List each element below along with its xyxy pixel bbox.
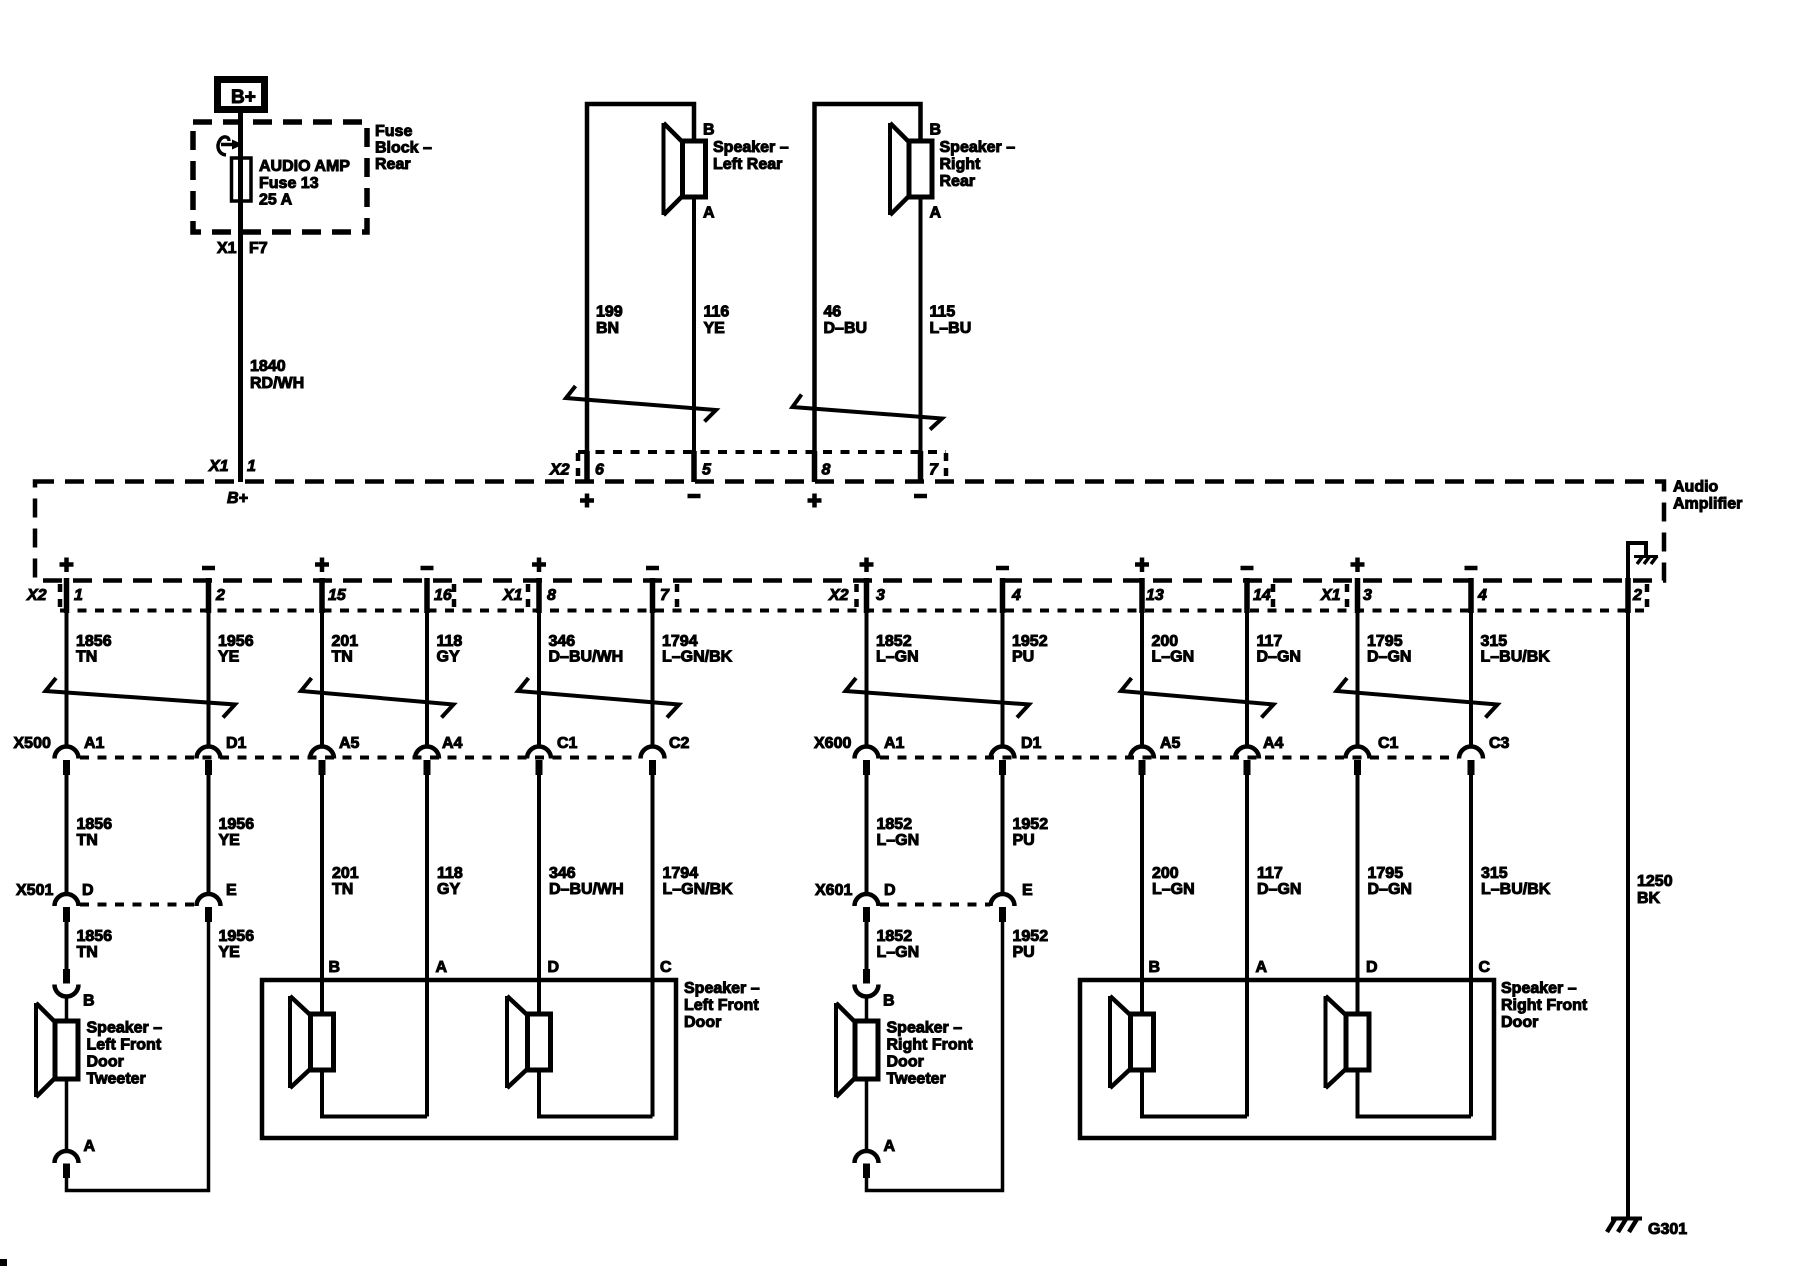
wire: circuit 200 L–GN to front door speaker (1140, 775, 1144, 1014)
svg-text:8: 8 (547, 587, 556, 604)
svg-text:TN: TN (77, 832, 98, 849)
svg-text:X2: X2 (828, 587, 849, 604)
wire: circuit 346 D–BU/WH from amplifier pin to connector (536, 578, 542, 613)
svg-text:1952: 1952 (1013, 816, 1049, 833)
svg-text:1794: 1794 (663, 865, 699, 882)
svg-text:B+: B+ (231, 87, 256, 108)
svg-text:BK: BK (1637, 890, 1661, 907)
speaker - left front door enclosure box (262, 980, 676, 1138)
svg-text:PU: PU (1013, 832, 1035, 849)
svg-text:46: 46 (824, 304, 842, 321)
svg-text:L–GN: L–GN (876, 649, 919, 666)
svg-text:A: A (884, 1138, 896, 1155)
connector X600 terminal D1 (female arc + male pin) (991, 747, 1015, 759)
svg-text:E: E (1022, 882, 1033, 899)
wire: right tweeter return loop to X501/X601 E (867, 922, 1003, 1191)
svg-text:X1: X1 (217, 240, 237, 257)
svg-text:Audio: Audio (1673, 479, 1719, 496)
wire: circuit 1956 YE from amplifier pin to connector (206, 578, 212, 613)
svg-text:Rear: Rear (375, 156, 411, 173)
amplifier connector X2 pin box (rear speaker pins) (578, 450, 946, 454)
svg-text:8: 8 (822, 462, 831, 479)
svg-text:B: B (930, 122, 942, 139)
svg-text:3: 3 (876, 587, 885, 604)
svg-text:117: 117 (1257, 865, 1283, 882)
connector X500 terminal D1 (female arc + male pin) (197, 747, 221, 759)
connector X500 terminal A1 (female arc + male pin) (55, 747, 79, 759)
svg-text:L–GN: L–GN (1152, 881, 1195, 898)
svg-text:A4: A4 (1263, 735, 1284, 752)
svg-text:1956: 1956 (219, 816, 255, 833)
polarity - above pin at x=652.5 (646, 566, 659, 571)
svg-text:315: 315 (1481, 633, 1508, 650)
wire: circuit 1852 L–GN X500/X600 to X501/X601 (865, 775, 869, 895)
svg-text:TN: TN (77, 944, 98, 961)
svg-text:D1: D1 (1021, 735, 1042, 752)
svg-text:YE: YE (219, 832, 241, 849)
svg-text:1: 1 (247, 458, 256, 475)
svg-text:200: 200 (1152, 865, 1179, 882)
svg-text:D: D (82, 882, 94, 899)
pin box dotted divider at x=677 (675, 584, 680, 610)
wire: left woofer 2 return loop D->C (539, 1070, 653, 1117)
svg-text:X600: X600 (814, 735, 851, 752)
svg-text:200: 200 (1152, 633, 1179, 650)
svg-text:201: 201 (332, 633, 359, 650)
polarity + above pin at x=866.5 (860, 558, 874, 573)
twisted pair marker #5 (1121, 678, 1274, 718)
twisted pair marker #4 (846, 678, 1030, 718)
svg-text:PU: PU (1012, 649, 1034, 666)
speaker - left front door woofer 1 symbol (288, 996, 292, 1088)
svg-text:Right Front: Right Front (887, 1037, 974, 1054)
svg-text:A1: A1 (884, 735, 905, 752)
svg-text:D: D (1366, 959, 1378, 976)
svg-text:Fuse: Fuse (375, 123, 412, 140)
svg-text:TN: TN (76, 649, 97, 666)
svg-text:D–BU/WH: D–BU/WH (549, 881, 624, 898)
wire: circuit 1250 BK, amplifier pin 2 to ground G301 (1625, 578, 1631, 613)
speaker - left front door tweeter symbol (34, 1003, 38, 1097)
polarity + above pin at x=539 (532, 558, 546, 573)
svg-text:YE: YE (219, 944, 241, 961)
svg-text:116: 116 (704, 304, 730, 321)
connector X501 terminal D (55, 894, 79, 906)
svg-text:199: 199 (596, 304, 623, 321)
wire: circuit 1794 L–GN/BK to front door speaker (651, 775, 655, 1117)
speaker - right front door tweeter symbol (834, 1003, 838, 1097)
pin box dotted divider at x=454 (452, 584, 457, 610)
svg-text:315: 315 (1481, 865, 1508, 882)
svg-text:AUDIO AMP: AUDIO AMP (259, 158, 350, 175)
svg-text:L–GN: L–GN (1152, 649, 1195, 666)
svg-text:GY: GY (437, 649, 460, 666)
svg-text:7: 7 (929, 462, 939, 479)
svg-text:Door: Door (887, 1054, 924, 1071)
wire: circuit 315 L–BU/BK to front door speaker (1469, 775, 1473, 1117)
svg-text:Door: Door (1501, 1014, 1538, 1031)
svg-text:B: B (83, 993, 95, 1010)
connector X600 terminal C1 (female arc + male pin) (1346, 747, 1370, 759)
svg-text:7: 7 (660, 587, 670, 604)
svg-text:D–GN: D–GN (1367, 649, 1411, 666)
polarity - above pin at x=427 (421, 566, 434, 571)
connector X500 terminal C2 (female arc + male pin) (641, 747, 665, 759)
battery positive voltage B+ terminal box (218, 80, 265, 110)
svg-text:C: C (1479, 959, 1491, 976)
wire: circuit 1852 L–GN from amplifier pin to connector (864, 578, 870, 613)
svg-text:A: A (84, 1138, 96, 1155)
svg-text:L–GN/BK: L–GN/BK (662, 649, 733, 666)
svg-text:G301: G301 (1648, 1221, 1687, 1238)
wire: circuit 1956 YE X500/X600 to X501/X601 (207, 775, 211, 895)
svg-text:YE: YE (704, 320, 726, 337)
wire: circuit 201 TN from amplifier pin to connector (319, 578, 325, 613)
fuse element hook symbol (218, 137, 229, 155)
fuse F13 body (AUDIO AMP Fuse 13 25 A) (232, 158, 252, 201)
svg-text:X2: X2 (26, 587, 47, 604)
svg-text:B: B (883, 993, 895, 1010)
in-line connector at right tweeter pin B (male pin + female arc) (863, 969, 870, 984)
twisted pair marker #1 (46, 678, 236, 718)
svg-text:D: D (884, 882, 896, 899)
svg-text:C3: C3 (1489, 735, 1510, 752)
wire: circuit 1856 TN X500/X600 to X501/X601 (65, 775, 69, 895)
svg-text:F7: F7 (249, 240, 268, 257)
in-line connector at left tweeter pin B (male pin + female arc) (63, 969, 70, 984)
wire: right woofer 1 return loop B->A (1142, 1070, 1247, 1117)
wire: circuit 46 D-BU, speaker right rear B feed (815, 104, 921, 482)
polarity + above pin at x=1357.5 (1351, 558, 1365, 573)
svg-text:201: 201 (332, 865, 359, 882)
svg-text:D–GN: D–GN (1257, 881, 1301, 898)
twisted pair marker (199/116) (566, 386, 716, 422)
pin box dotted divider at x=60 (58, 584, 63, 610)
svg-text:L–BU: L–BU (930, 320, 972, 337)
in-line connector at left tweeter pin A (female arc + male pin) (55, 1151, 79, 1163)
wire: right woofer 2 return loop D->C (1358, 1070, 1472, 1117)
svg-text:PU: PU (1013, 944, 1035, 961)
twisted pair marker #6 (1337, 678, 1498, 718)
wire into left tweeter (65, 995, 69, 1021)
amplifier bottom pin row dotted strip (60, 609, 1650, 613)
svg-text:A: A (930, 205, 942, 222)
polarity - above pin at x=1002.5 (996, 566, 1009, 571)
twisted pair marker #3 (518, 678, 679, 718)
fuse block - rear enclosure (dashed) (193, 122, 367, 232)
connector X600 terminal A1 (female arc + male pin) (855, 747, 879, 759)
svg-text:Speaker –: Speaker – (940, 139, 1016, 156)
svg-text:D–GN: D–GN (1257, 649, 1301, 666)
svg-text:Speaker –: Speaker – (1501, 980, 1577, 997)
polarity + above pin at x=66.5 (60, 558, 74, 573)
wire: left woofer 1 return loop B->A (322, 1070, 427, 1117)
pin box dotted divider at x=1647 (1645, 584, 1650, 610)
twisted pair marker (46/115) (793, 395, 943, 430)
svg-text:C1: C1 (557, 735, 578, 752)
speaker - right front door woofer 1 symbol (1108, 996, 1112, 1088)
svg-text:Door: Door (87, 1054, 124, 1071)
svg-text:TN: TN (332, 649, 353, 666)
speaker U2 - right rear symbol (888, 123, 892, 215)
svg-text:15: 15 (328, 587, 347, 604)
svg-text:B: B (703, 122, 715, 139)
svg-text:2: 2 (215, 587, 225, 604)
svg-text:D–GN: D–GN (1368, 881, 1412, 898)
svg-text:118: 118 (437, 865, 463, 882)
svg-text:X501: X501 (16, 882, 53, 899)
svg-text:5: 5 (702, 462, 712, 479)
svg-text:A1: A1 (84, 735, 105, 752)
speaker - right front door woofer 2 symbol (1324, 996, 1328, 1088)
svg-text:117: 117 (1257, 633, 1283, 650)
polarity - at pin 5 (688, 494, 701, 499)
connector X500 dotted tie line (80, 756, 640, 760)
twisted pair marker #2 (301, 678, 454, 718)
svg-text:GY: GY (437, 881, 460, 898)
polarity - above pin at x=1247 (1241, 566, 1254, 571)
connector X601 dotted tie line (880, 903, 990, 907)
svg-text:Speaker –: Speaker – (87, 1020, 163, 1037)
svg-text:Right Front: Right Front (1501, 997, 1588, 1014)
svg-text:L–BU/BK: L–BU/BK (1481, 881, 1551, 898)
svg-text:A: A (703, 205, 715, 222)
svg-text:D–BU: D–BU (824, 320, 868, 337)
wire: circuit 115 L-BU, speaker right rear A return (919, 197, 923, 482)
svg-text:1952: 1952 (1013, 928, 1049, 945)
amplifier rear pin stubs (584, 451, 590, 482)
svg-text:Left Front: Left Front (684, 997, 759, 1014)
svg-text:1856: 1856 (77, 816, 113, 833)
connector X601 terminal D (855, 894, 879, 906)
svg-text:C2: C2 (669, 735, 690, 752)
svg-text:1956: 1956 (218, 633, 254, 650)
svg-text:B+: B+ (227, 490, 248, 507)
svg-text:X1: X1 (1320, 587, 1341, 604)
svg-text:4: 4 (1477, 587, 1487, 604)
polarity - at pin 7 (914, 494, 927, 499)
page artifact dot (bottom left) (0, 1259, 7, 1266)
svg-text:A5: A5 (1160, 735, 1181, 752)
svg-text:A4: A4 (442, 735, 463, 752)
audio amplifier enclosure (dashed box) (35, 482, 1664, 581)
svg-text:1250: 1250 (1637, 873, 1673, 890)
svg-text:118: 118 (437, 633, 463, 650)
svg-text:Tweeter: Tweeter (887, 1071, 946, 1088)
pin box dotted divider at x=1347 (1345, 584, 1350, 610)
wire: circuit 346 D–BU/WH to front door speaker (537, 775, 541, 1014)
connector X500 terminal A5 (female arc + male pin) (310, 747, 334, 759)
svg-text:Right: Right (940, 156, 982, 173)
in-line connector at right tweeter pin A (female arc + male pin) (855, 1151, 879, 1163)
wire: circuit 116 YE, speaker left rear A return (692, 197, 696, 482)
svg-text:YE: YE (218, 649, 240, 666)
connector X501 terminal E (197, 894, 221, 906)
svg-text:L–GN: L–GN (877, 944, 920, 961)
svg-text:B: B (1149, 959, 1161, 976)
svg-text:1852: 1852 (877, 816, 913, 833)
svg-text:A5: A5 (339, 735, 360, 752)
svg-text:Rear: Rear (940, 173, 976, 190)
svg-text:Left Front: Left Front (87, 1037, 162, 1054)
wire: circuit 117 D–GN from amplifier pin to connector (1244, 578, 1250, 613)
connector X600 terminal C3 (female arc + male pin) (1459, 747, 1483, 759)
svg-text:D1: D1 (226, 735, 247, 752)
connector X500 terminal A4 (female arc + male pin) (415, 747, 439, 759)
connector X500 terminal C1 (female arc + male pin) (527, 747, 551, 759)
svg-text:Speaker –: Speaker – (684, 980, 760, 997)
wire: right tweeter feed from X501/X601 D (865, 922, 869, 969)
svg-text:Left Rear: Left Rear (713, 156, 782, 173)
wire: left tweeter return loop to X501/X601 E (67, 922, 209, 1191)
svg-text:C1: C1 (1378, 735, 1399, 752)
wire: circuit 200 L–GN from amplifier pin to connector (1139, 578, 1145, 613)
svg-text:4: 4 (1011, 587, 1021, 604)
svg-text:Door: Door (684, 1014, 721, 1031)
svg-text:6: 6 (595, 462, 604, 479)
pin box dotted divider at x=528 (526, 584, 531, 610)
connector X600 terminal A4 (female arc + male pin) (1235, 747, 1259, 759)
svg-text:A: A (436, 959, 448, 976)
wire: circuit 201 TN to front door speaker (320, 775, 324, 1014)
svg-text:Amplifier: Amplifier (1673, 496, 1742, 513)
svg-text:X2: X2 (549, 462, 570, 479)
wire: circuit 118 GY to front door speaker (425, 775, 429, 1117)
amplifier internal ground wire (to pin X1-2) (1628, 543, 1646, 581)
pin box dotted divider at x=856.5 (854, 584, 859, 610)
svg-text:X601: X601 (815, 882, 852, 899)
svg-text:X500: X500 (14, 735, 51, 752)
polarity + above pin at x=1142 (1135, 558, 1149, 573)
svg-text:346: 346 (549, 633, 576, 650)
wire: left tweeter feed from X501/X601 D (65, 922, 69, 969)
speaker - right front door enclosure box (1080, 980, 1494, 1138)
svg-text:A: A (1256, 959, 1268, 976)
wire: circuit 1952 PU X500/X600 to X501/X601 (1001, 775, 1005, 895)
amplifier internal chassis ground symbol (1634, 555, 1658, 558)
svg-text:346: 346 (549, 865, 576, 882)
wire: circuit 1795 D–GN from amplifier pin to connector (1355, 578, 1361, 613)
wire: circuit 1952 PU from amplifier pin to connector (1000, 578, 1006, 613)
svg-text:D–BU/WH: D–BU/WH (549, 649, 624, 666)
svg-text:E: E (226, 882, 237, 899)
wire: circuit 1795 D–GN to front door speaker (1356, 775, 1360, 1014)
wire: circuit 315 L–BU/BK from amplifier pin to connector (1468, 578, 1474, 613)
svg-text:1956: 1956 (219, 928, 255, 945)
svg-text:1795: 1795 (1367, 633, 1403, 650)
svg-text:X1: X1 (502, 587, 523, 604)
wire: circuit 199 BN, speaker left rear B feed (587, 104, 694, 482)
connector X600 dotted tie line (880, 756, 1458, 760)
svg-text:X1: X1 (208, 458, 229, 475)
svg-text:RD/WH: RD/WH (250, 375, 304, 392)
svg-text:16: 16 (434, 587, 452, 604)
svg-text:Fuse 13: Fuse 13 (259, 175, 319, 192)
wire: circuit 117 D–GN to front door speaker (1245, 775, 1249, 1117)
wire into right tweeter (865, 995, 869, 1021)
svg-text:B: B (329, 959, 341, 976)
connector X600 terminal A5 (female arc + male pin) (1130, 747, 1154, 759)
svg-text:1852: 1852 (877, 928, 913, 945)
svg-text:D: D (548, 959, 560, 976)
svg-text:Block –: Block – (375, 140, 432, 157)
svg-text:Tweeter: Tweeter (87, 1071, 146, 1088)
connector X601 terminal E (991, 894, 1015, 906)
polarity + above pin at x=322 (315, 558, 329, 573)
svg-text:1795: 1795 (1368, 865, 1404, 882)
svg-text:1: 1 (74, 587, 83, 604)
svg-text:BN: BN (596, 320, 619, 337)
wire: circuit 118 GY from amplifier pin to connector (424, 578, 430, 613)
polarity - above pin at x=1471 (1465, 566, 1478, 571)
wire: circuit 1794 L–GN/BK from amplifier pin to connector (650, 578, 656, 613)
ground G301 chassis symbol (1611, 1217, 1642, 1221)
wire: circuit 1856 TN from amplifier pin to connector (64, 578, 70, 613)
polarity + at pin 8 (808, 494, 822, 508)
polarity + at pin 6 (580, 494, 594, 508)
svg-text:L–GN: L–GN (877, 832, 920, 849)
svg-text:1856: 1856 (76, 633, 112, 650)
svg-text:Speaker –: Speaker – (887, 1020, 963, 1037)
svg-text:3: 3 (1363, 587, 1372, 604)
svg-text:1852: 1852 (876, 633, 912, 650)
svg-text:13: 13 (1146, 587, 1164, 604)
svg-text:L–GN/BK: L–GN/BK (663, 881, 734, 898)
svg-text:TN: TN (332, 881, 353, 898)
svg-text:2: 2 (1632, 587, 1642, 604)
pin box dotted divider at x=1273 (1271, 584, 1276, 610)
svg-text:1856: 1856 (77, 928, 113, 945)
wire from left tweeter to pin A (65, 1079, 69, 1152)
svg-text:C: C (660, 959, 672, 976)
svg-text:Speaker –: Speaker – (713, 139, 789, 156)
svg-text:115: 115 (930, 304, 956, 321)
svg-text:L–BU/BK: L–BU/BK (1481, 649, 1551, 666)
svg-text:1952: 1952 (1012, 633, 1048, 650)
svg-text:1840: 1840 (250, 358, 286, 375)
polarity - above pin at x=208.5 (202, 566, 215, 571)
svg-text:14: 14 (1253, 587, 1271, 604)
svg-text:25 A: 25 A (259, 192, 293, 209)
wire from right tweeter to pin A (865, 1079, 869, 1152)
wire: circuit 1840 RD/WH, B+ feed through Fuse 13 to amplifier pin X1-1 (238, 113, 243, 482)
svg-text:1794: 1794 (662, 633, 698, 650)
speaker - left front door woofer 2 symbol (505, 996, 509, 1088)
speaker U1 - left rear symbol (662, 123, 666, 215)
connector X501 dotted tie line (80, 903, 196, 907)
